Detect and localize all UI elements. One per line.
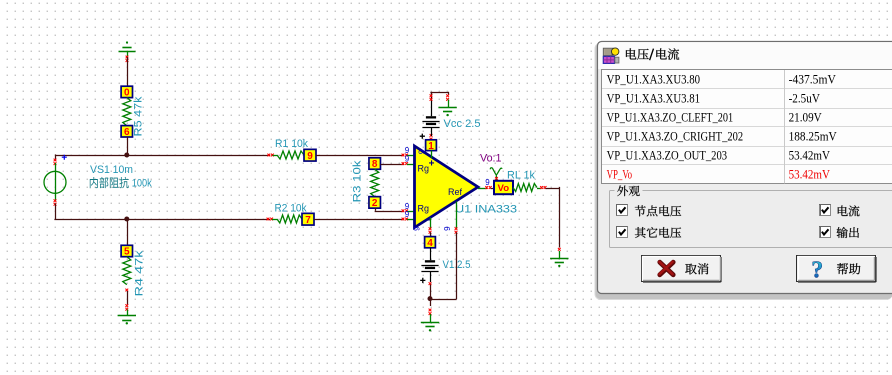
terminal Vo [494,181,513,194]
svg-text:VP_U1.XA3.XU3.81: VP_U1.XA3.XU3.81 [607,91,701,105]
wire R1 to op-amp +in [316,155,404,157]
svg-text:R3 10k: R3 10k [352,160,364,203]
dialog icon [603,48,613,55]
pin 1 / V+ supply [430,134,433,140]
svg-text:Vo: Vo [498,183,510,194]
svg-text:U1 INA333: U1 INA333 [455,204,517,216]
svg-text:VS1 10m: VS1 10m [90,164,133,176]
svg-text:VP_U1.XA3.ZO_CLEFT_201: VP_U1.XA3.ZO_CLEFT_201 [607,110,734,124]
wire lower rail [55,204,57,220]
svg-text:21.09V: 21.09V [789,110,822,124]
svg-text:VP_U1.XA3.ZO_CRIGHT_202: VP_U1.XA3.ZO_CRIGHT_202 [607,130,744,144]
ground (V1) [421,322,439,324]
checkbox 电流 (checked) [820,205,831,216]
svg-text:53.42mV: 53.42mV [789,168,830,182]
pin 4 / V- supply [430,218,432,229]
group box 外观 [610,191,892,248]
op-amp U1 INA333 [415,146,479,228]
ground (RL) [550,258,568,260]
svg-text:?: ? [811,258,823,284]
wire R4 to ground [127,291,129,305]
svg-text:9: 9 [485,178,490,187]
battery V1 2.5 [425,260,435,262]
svg-text:Vcc 2.5: Vcc 2.5 [444,118,481,130]
wire node C to ground [430,299,432,306]
resistor R4 47k [121,245,132,256]
svg-text:R4 47k: R4 47k [134,250,146,297]
node C junction [428,296,433,301]
dialog window 电压/电流 [595,43,892,301]
battery Vcc 2.5 [426,116,436,118]
wire upper rail [55,155,270,157]
node A junction [124,153,129,158]
svg-text:9: 9 [413,226,422,231]
checkbox 节点电压 (checked) [617,205,628,216]
button 帮助 (help) [797,256,876,282]
svg-text:5: 5 [124,247,130,258]
svg-text:0: 0 [124,88,130,99]
wire R2 to op-amp -in [314,219,404,221]
wire ground to R5 [127,57,129,86]
svg-text:1: 1 [428,141,434,152]
svg-text:VP_U1.XA3.ZO_OUT_203: VP_U1.XA3.ZO_OUT_203 [607,149,728,163]
svg-text:188.25mV: 188.25mV [789,130,837,144]
node B junction [124,217,129,222]
svg-text:9: 9 [443,226,452,231]
svg-text:Vo:1: Vo:1 [480,153,502,165]
resistor R5 47k [121,86,132,97]
svg-text:7: 7 [305,215,311,226]
wire node B to R4 [127,219,129,246]
button 取消 (cancel) [642,256,721,282]
measurement table [602,70,892,184]
svg-text:-2.5uV: -2.5uV [789,91,820,105]
ground (R4) [118,315,136,317]
svg-text:+: + [429,159,435,170]
wire RL to ground [545,188,560,190]
wire R5 to node A [127,137,129,155]
checkbox 其它电压 (checked) [617,227,628,238]
resistor R3 10k (gain set) [369,158,381,170]
wire V1 to node C [430,285,432,299]
pin junction marker at top ground [126,56,129,62]
output pin to Vo terminal [478,188,487,190]
svg-text:VP_U1.XA3.XU3.80: VP_U1.XA3.XU3.80 [607,72,701,86]
ground (Vcc) [448,100,450,108]
svg-text:53.42mV: 53.42mV [789,149,830,163]
svg-text:Rg: Rg [418,204,430,214]
svg-text:9: 9 [307,151,313,162]
svg-text:Ref: Ref [448,187,463,197]
svg-text:6: 6 [124,127,130,138]
svg-text:RL 1k: RL 1k [507,170,536,182]
wire R3 pin2 to op-amp Rg2 [375,208,377,211]
dialog title text [626,48,636,59]
source VS1 10m (internal resistance 100k) [54,159,57,165]
svg-text:4: 4 [427,238,433,249]
svg-text:Rg: Rg [418,164,430,174]
svg-text:VP_Vo: VP_Vo [607,168,632,182]
svg-text:9: 9 [405,210,410,219]
svg-text:R5 47k: R5 47k [133,96,145,137]
ground (top, net 0) [119,51,136,53]
svg-text:9: 9 [405,155,410,164]
svg-text:2: 2 [372,198,378,209]
svg-text:R1 10k: R1 10k [275,138,309,150]
wire Vcc to ground corner [430,92,448,94]
Ref pin wire [456,202,458,230]
svg-text:8: 8 [372,159,378,170]
checkbox 输出 (checked) [820,227,831,238]
svg-text:100k: 100k [132,178,152,190]
svg-text:-437.5mV: -437.5mV [789,72,836,86]
wire R3 pin8 to op-amp Rg1 [381,164,405,166]
dialog title strip [598,42,892,69]
